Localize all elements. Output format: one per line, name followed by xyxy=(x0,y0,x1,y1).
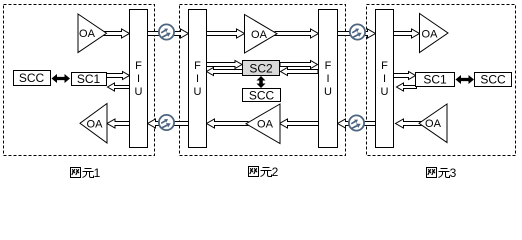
svg-text:SCC: SCC xyxy=(480,73,506,87)
svg-text:I: I xyxy=(196,73,199,85)
svg-text:SCC: SCC xyxy=(249,89,275,103)
svg-text:SC1: SC1 xyxy=(77,72,101,86)
svg-text:I: I xyxy=(326,73,329,85)
svg-text:OA: OA xyxy=(79,28,96,40)
svg-text:SCC: SCC xyxy=(19,71,45,85)
svg-text:SC2: SC2 xyxy=(249,62,273,76)
svg-text:OA: OA xyxy=(251,29,268,41)
svg-text:3: 3 xyxy=(450,166,457,180)
svg-text:F: F xyxy=(325,60,332,72)
svg-text:1: 1 xyxy=(94,166,101,180)
svg-text:U: U xyxy=(135,86,143,98)
svg-text:U: U xyxy=(324,86,332,98)
svg-text:SC1: SC1 xyxy=(423,73,447,87)
svg-text:U: U xyxy=(194,86,202,98)
svg-text:OA: OA xyxy=(425,118,442,130)
svg-text:OA: OA xyxy=(422,29,439,41)
svg-text:I: I xyxy=(383,73,386,85)
svg-text:U: U xyxy=(381,86,389,98)
svg-text:2: 2 xyxy=(272,165,279,179)
svg-text:F: F xyxy=(381,60,388,72)
svg-text:F: F xyxy=(135,60,142,72)
svg-text:OA: OA xyxy=(257,119,274,131)
svg-text:I: I xyxy=(137,73,140,85)
svg-text:OA: OA xyxy=(87,119,104,131)
svg-text:F: F xyxy=(194,60,201,72)
